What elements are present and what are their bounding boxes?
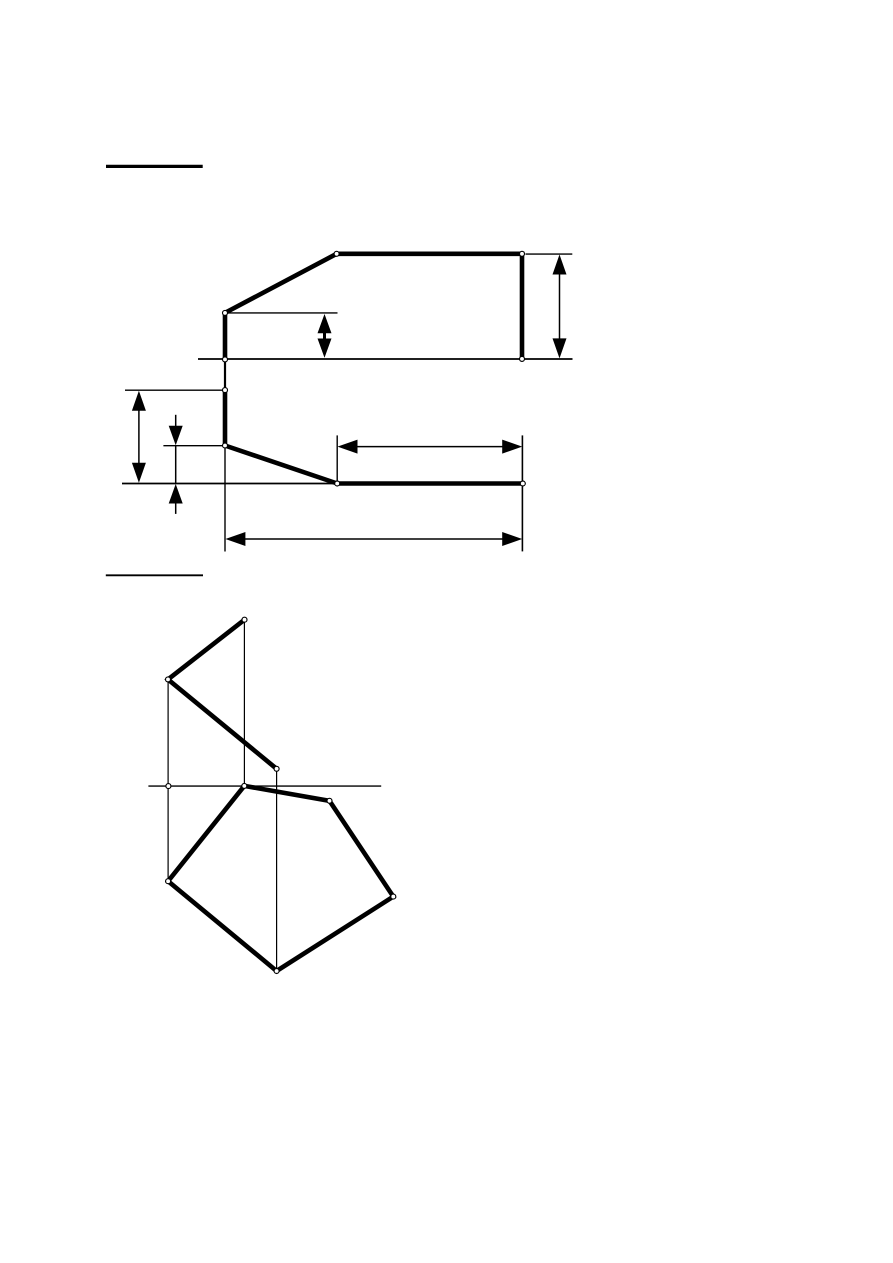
- figure 2: projection line from Q2: [167, 679, 169, 881]
- node Q9: [274, 969, 279, 974]
- figure 1: thick contour upper view: [225, 254, 522, 360]
- node Q5: [242, 783, 247, 788]
- dimension arrow small middle vertical: [318, 314, 332, 358]
- node Q8: [391, 894, 396, 899]
- dimension arrows small at x=175.7: [169, 415, 183, 514]
- extension line right vertical: [521, 435, 523, 551]
- node F: [223, 388, 228, 393]
- extension line from point A: [225, 312, 338, 314]
- node Q4: [166, 784, 171, 789]
- heading underline 2: [106, 574, 203, 576]
- node Q6: [327, 798, 332, 803]
- dimension arrow bottom horizontal: [225, 532, 522, 546]
- node G: [223, 443, 228, 448]
- figure 1: connection line E-F: [224, 359, 226, 390]
- node Q1: [242, 617, 247, 622]
- figure 2: projection line from Q1: [243, 620, 245, 786]
- node C: [520, 251, 525, 256]
- node Q3: [274, 766, 279, 771]
- heading underline 1: [106, 165, 203, 168]
- node E: [223, 357, 228, 362]
- node H: [335, 481, 340, 486]
- figure 2: axis line: [148, 785, 381, 787]
- node B: [334, 251, 339, 256]
- figure 2: projection line from Q3: [276, 769, 278, 971]
- node Q2: [166, 677, 171, 682]
- node I: [520, 481, 525, 486]
- node A: [223, 310, 228, 315]
- dimension arrow right vertical: [553, 255, 567, 359]
- node Q7: [166, 879, 171, 884]
- dimension arrow middle horizontal: [338, 440, 523, 454]
- node D: [520, 356, 525, 361]
- extension line above point H: [336, 435, 338, 481]
- dimension arrow left vertical: [132, 391, 146, 483]
- figure 1: lower-view axis line: [122, 483, 526, 485]
- figure 2: thick pentagon: [168, 786, 393, 971]
- figure 1: thick contour lower view: [225, 390, 523, 483]
- extension line from point G: [163, 445, 225, 447]
- figure 2: thick upper polyline: [168, 620, 277, 769]
- figure 1: front-view axis line: [198, 358, 573, 360]
- extension line from point F: [125, 389, 226, 391]
- extension line left vertical: [224, 449, 226, 552]
- extension line top right: [526, 253, 573, 255]
